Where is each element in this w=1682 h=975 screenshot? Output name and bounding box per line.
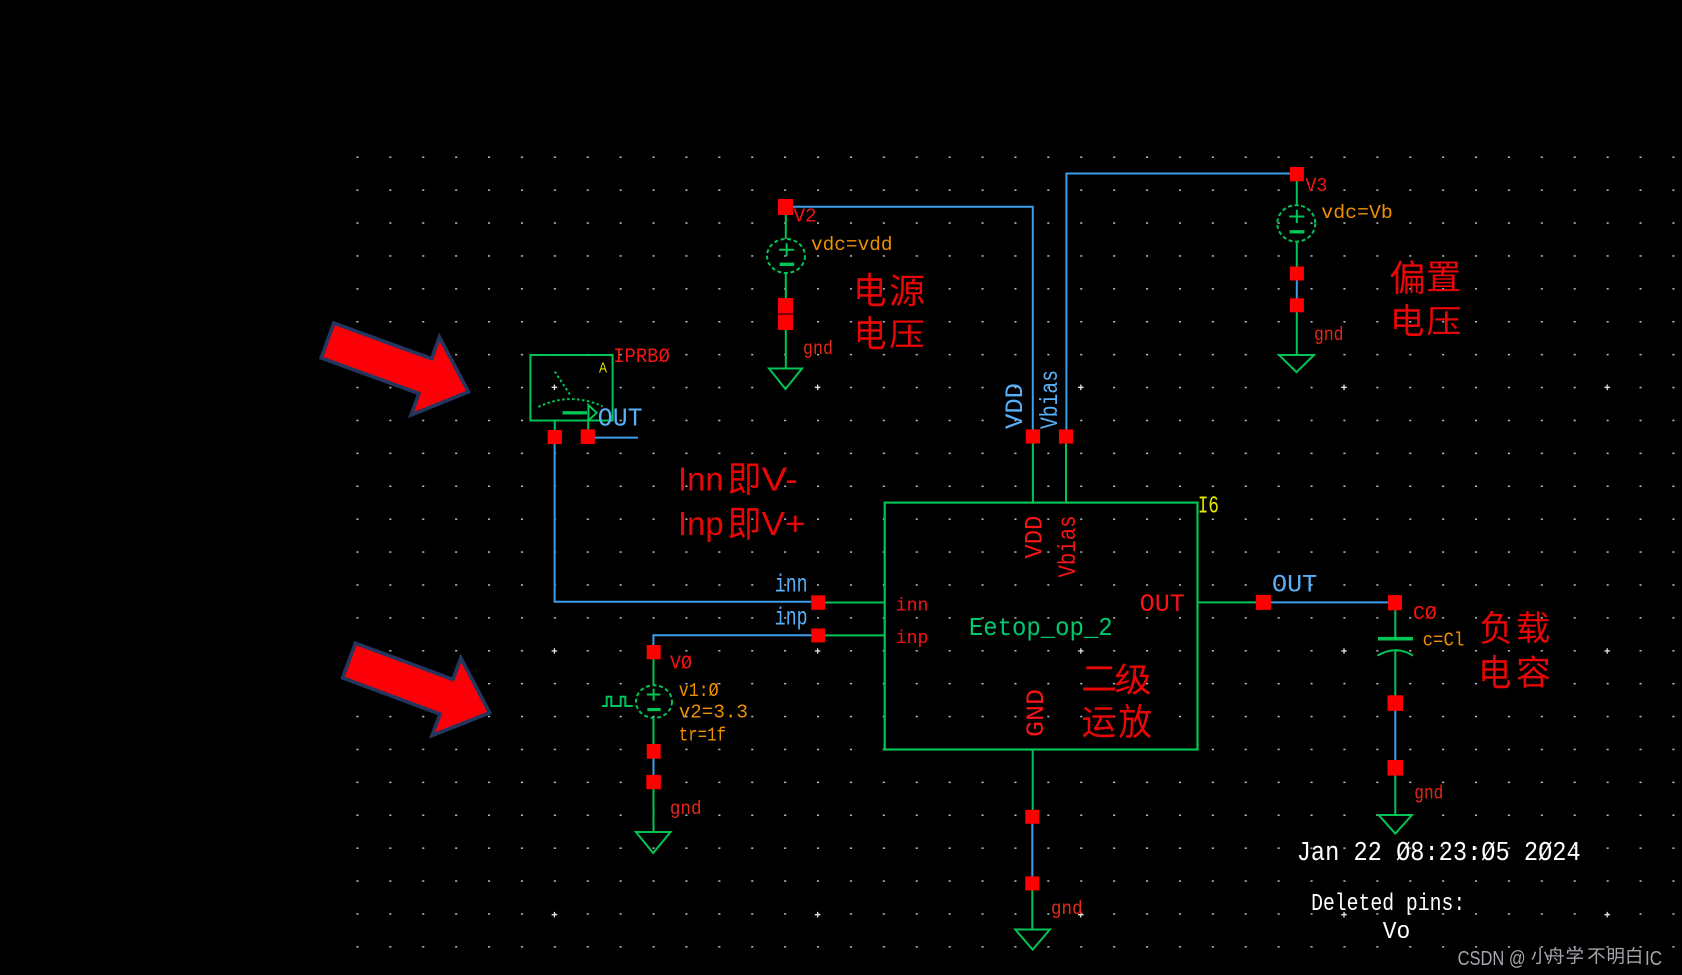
- svg-text:vdc=Vb: vdc=Vb: [1321, 202, 1393, 224]
- svg-text:VDD: VDD: [1020, 516, 1049, 559]
- CSDN watermark: [1458, 947, 1662, 970]
- C0 pins: [1388, 595, 1402, 610]
- annotation Inn即V- / Inp即V+: [678, 461, 806, 543]
- svg-text:V3: V3: [1305, 175, 1327, 197]
- V0 bottom pins: [647, 744, 661, 759]
- op-amp I6 Eetop_op_2 symbol box: [885, 503, 1198, 750]
- voltage source V3 (vdc=Vb) symbol: [1277, 181, 1315, 355]
- wire VDD net from V2 to op-amp: [791, 207, 1033, 430]
- svg-text:Deleted pins:: Deleted pins:: [1311, 891, 1465, 918]
- svg-text:gnd: gnd: [670, 798, 702, 820]
- svg-text:V2: V2: [794, 206, 817, 228]
- wire OUT stub at IPRB0: [594, 437, 638, 439]
- svg-text:V+: V+: [762, 505, 806, 542]
- V2 top pin: [778, 199, 793, 215]
- svg-text:Vbias: Vbias: [1036, 370, 1065, 429]
- wire Vbias net from V3 to op-amp: [1066, 174, 1291, 431]
- svg-text:CØ: CØ: [1413, 603, 1437, 625]
- wire V0 to gnd: [653, 758, 655, 776]
- svg-text:Jan 22 Ø8:23:Ø5 2Ø24: Jan 22 Ø8:23:Ø5 2Ø24: [1297, 839, 1581, 869]
- grid origin cross markers: [552, 385, 1610, 918]
- capacitor C0 symbol: [1378, 610, 1414, 815]
- op-amp inn pin square: [811, 595, 825, 610]
- svg-text:c=Cl: c=Cl: [1423, 629, 1465, 651]
- V3 top pin: [1290, 167, 1304, 181]
- gnd symbol below C0: [1379, 815, 1412, 834]
- svg-text:vdc=vdd: vdc=vdd: [811, 234, 893, 256]
- svg-text:OUT: OUT: [1140, 590, 1185, 619]
- svg-text:V-: V-: [762, 461, 798, 498]
- IPRB0 pins: [548, 430, 562, 444]
- op-amp GND pin squares: [1025, 810, 1039, 824]
- svg-text:inn: inn: [896, 596, 929, 616]
- svg-text:gnd: gnd: [1314, 324, 1344, 346]
- svg-text:Inp: Inp: [678, 505, 724, 542]
- svg-text:OUT: OUT: [1272, 571, 1317, 600]
- red annotation arrow 2: [343, 643, 490, 735]
- svg-text:IC: IC: [1645, 948, 1662, 970]
- svg-text:Vbias: Vbias: [1054, 516, 1083, 578]
- wire OUT net from op-amp to C0: [1270, 601, 1389, 603]
- annotation 偏置电压 (bias voltage): [1390, 260, 1459, 336]
- svg-text:VØ: VØ: [670, 653, 692, 675]
- op-amp VDD pin square: [1026, 429, 1040, 443]
- svg-text:I6: I6: [1198, 493, 1219, 520]
- svg-text:tr=1f: tr=1f: [679, 725, 726, 747]
- svg-text:GND: GND: [1022, 689, 1051, 737]
- voltage source V0 (vpulse) symbol: [602, 659, 672, 832]
- gnd symbol below V0: [636, 832, 671, 853]
- svg-text:inp: inp: [775, 603, 808, 632]
- wire inn net from IPRB0 to op-amp: [555, 443, 812, 602]
- svg-text:gnd: gnd: [1414, 782, 1443, 804]
- svg-text:VDD: VDD: [1001, 383, 1030, 429]
- svg-text:OUT: OUT: [598, 403, 643, 433]
- wire V3 to gnd: [1296, 280, 1298, 300]
- svg-text:v2=3.3: v2=3.3: [679, 702, 748, 724]
- op-amp inp pin square: [811, 629, 825, 643]
- svg-text:v1:Ø: v1:Ø: [679, 680, 719, 702]
- svg-text:gnd: gnd: [1051, 898, 1083, 920]
- grid dots: [345, 148, 1682, 960]
- svg-text:CSDN @: CSDN @: [1458, 948, 1526, 970]
- annotation 负载电容 (load capacitance): [1481, 611, 1549, 688]
- V2 bottom pins: [778, 298, 793, 314]
- wire C0 to gnd: [1394, 710, 1396, 761]
- gnd symbol below op-amp: [1015, 930, 1050, 950]
- gnd symbol below V3: [1279, 355, 1314, 372]
- svg-text:inp: inp: [896, 629, 929, 649]
- gnd symbol below V2: [769, 369, 802, 390]
- op-amp pin stubs: [824, 443, 1257, 930]
- svg-text:IPRBØ: IPRBØ: [613, 346, 670, 369]
- V3 bottom pins: [1290, 267, 1304, 281]
- svg-text:gnd: gnd: [803, 338, 833, 360]
- svg-text:Eetop_op_2: Eetop_op_2: [969, 613, 1113, 643]
- wire inp net from V0 to op-amp: [653, 635, 812, 645]
- red annotation arrow 1: [321, 323, 468, 415]
- annotation 电源电压 (supply voltage): [857, 273, 924, 349]
- op-amp Vbias pin square: [1059, 429, 1073, 443]
- current probe IPRB0 symbol: [530, 355, 612, 431]
- svg-text:A: A: [599, 360, 607, 377]
- pulse waveform glyph: [602, 697, 633, 706]
- annotation 二级运放 (two-stage op-amp): [1083, 663, 1151, 738]
- wire op-amp GND to gnd: [1031, 823, 1033, 878]
- svg-text:inn: inn: [775, 571, 808, 600]
- V0 top pin: [647, 645, 661, 659]
- voltage source V2 (vdc=vdd) symbol: [767, 214, 805, 369]
- op-amp OUT pin square: [1256, 595, 1271, 610]
- svg-text:Vo: Vo: [1383, 919, 1411, 946]
- svg-text:Inn: Inn: [678, 461, 724, 498]
